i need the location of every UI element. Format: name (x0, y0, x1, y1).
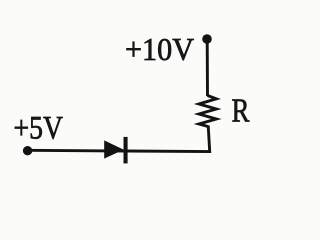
node +5V terminal (23, 146, 32, 155)
diode D1 cathode bar (124, 137, 128, 164)
svg-text:+5V: +5V (14, 110, 64, 146)
svg-text:R: R (232, 92, 251, 129)
node +10V terminal (202, 34, 212, 44)
wire (resistor bottom, corner elbow, horizontal run to +5V node) (28, 126, 210, 152)
resistor R (199, 96, 216, 127)
wire (from +10V node down to resistor top) (206, 41, 209, 96)
diode D1 anode triangle (104, 140, 123, 158)
svg-text:+10V: +10V (125, 31, 194, 67)
